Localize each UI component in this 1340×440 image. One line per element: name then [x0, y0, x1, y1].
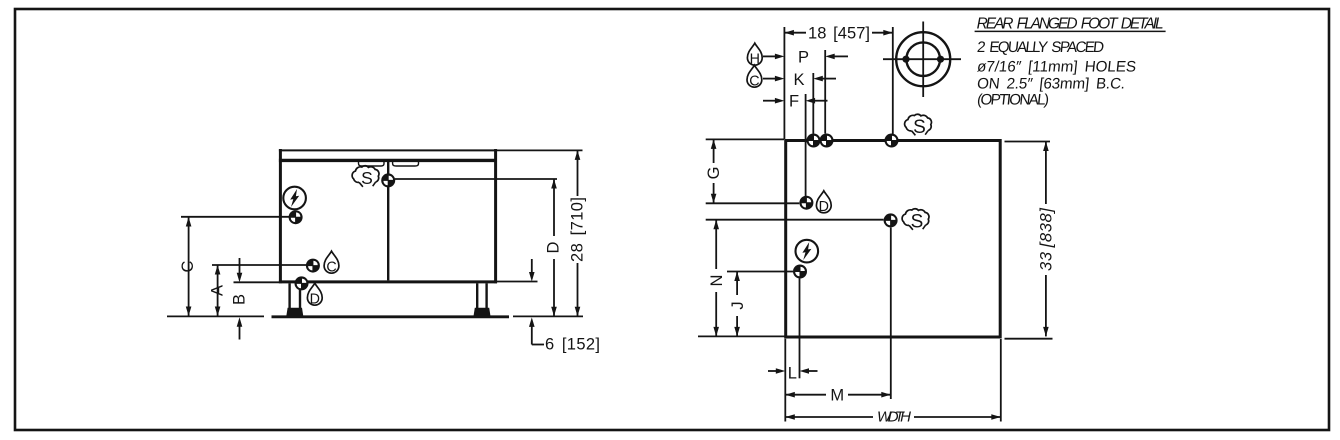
dim F arrow left: [775, 98, 785, 104]
ext 33 bottom: [1005, 338, 1053, 340]
note heading underline: [975, 30, 1166, 32]
ext drain level left: [706, 202, 800, 204]
right foot: [473, 308, 490, 317]
dim 33 arrow top: [1043, 142, 1049, 152]
svg-text:(OPTIONAL): (OPTIONAL): [976, 92, 1050, 109]
cabinet top line: [279, 149, 497, 151]
plan extension and dim lines: [698, 27, 1053, 422]
steam marker (plan): [884, 213, 898, 227]
dim 6 arrow bottom: [529, 317, 535, 327]
cabinet right edge: [494, 149, 497, 283]
ext line electrical height: [181, 216, 289, 218]
dim L arrow right: [800, 368, 810, 374]
dim F arrows shafts: [763, 100, 776, 102]
steam cloud above top edge: [905, 114, 932, 138]
ext F to drain marker: [805, 94, 807, 196]
dim 18 arrow left: [784, 30, 794, 36]
dim WIDTH arrow right: [991, 414, 1001, 420]
steam cloud S (elevation): [352, 166, 379, 188]
ext line steam height right: [395, 178, 557, 180]
electrical connection marker (elevation): [289, 210, 303, 224]
ext plan top-left: [706, 138, 784, 140]
cabinet bottom edge: [279, 280, 497, 283]
svg-text:REAR FLANGED FOOT DETAIL: REAR FLANGED FOOT DETAIL: [977, 16, 1164, 33]
ext steam level left: [706, 219, 884, 221]
dim 28 arrow bottom: [575, 307, 581, 317]
steam cloud S (plan): [902, 209, 929, 233]
dim line N: [715, 220, 717, 269]
drain drop D (elevation): [307, 283, 322, 307]
dim K arrow right: [813, 76, 823, 82]
dim D arrow bottom: [551, 307, 557, 317]
dim L arrow shafts: [768, 370, 777, 372]
ext P line: [824, 50, 826, 134]
dim 33 arrow bottom: [1043, 327, 1049, 337]
dim 6 arrow top: [529, 272, 535, 282]
svg-text:ON 2.5″ [63mm] B.C.: ON 2.5″ [63mm] B.C.: [976, 75, 1126, 92]
marker P (top edge): [820, 134, 834, 148]
dim C/K arrows shafts: [763, 78, 776, 80]
ext plan right below: [1000, 339, 1002, 422]
electrical marker (plan): [793, 265, 807, 279]
svg-text:D: D: [310, 291, 320, 307]
ground line right thin segment: [513, 315, 583, 317]
cabinet left edge: [279, 149, 282, 283]
dim line G: [713, 139, 715, 163]
dim 6 arrow shafts and leader: [531, 259, 533, 274]
dim line D: [553, 179, 555, 236]
svg-text:A: A: [208, 285, 226, 296]
cold water drop C (elevation): [324, 251, 339, 275]
dim J arrow bottom: [734, 327, 740, 337]
svg-text:C: C: [326, 259, 336, 275]
dim P arrow left: [775, 54, 785, 60]
svg-text:K: K: [793, 71, 804, 89]
ext plan left below: [784, 339, 786, 422]
foot detail crosshair vertical: [922, 22, 924, 98]
dim L arrow left: [776, 368, 786, 374]
left foot: [286, 308, 303, 317]
dim C arrow bottom: [186, 307, 192, 317]
extension + dimension lines, elevation: [181, 150, 583, 344]
svg-text:D: D: [545, 241, 563, 253]
dim 18 arrow right: [883, 30, 893, 36]
left door pull: [359, 162, 385, 166]
dim 28 arrow top: [575, 150, 581, 160]
foot detail hole left: [902, 56, 909, 63]
dim A arrow bottom: [215, 307, 221, 317]
dim G arrow top: [711, 139, 717, 149]
water drop H (plan left): [747, 43, 762, 67]
dim line M: [785, 394, 826, 396]
dim H/P arrows shafts: [763, 55, 776, 57]
ext line cabinet bottom left: [234, 281, 280, 283]
svg-text:G: G: [705, 167, 723, 180]
ext line cabinet bottom right: [497, 281, 538, 283]
dim K arrow left: [775, 76, 785, 82]
svg-text:P: P: [798, 49, 809, 67]
dim A arrow top: [215, 265, 221, 275]
svg-text:S: S: [911, 212, 924, 233]
svg-text:33 [838]: 33 [838]: [1037, 208, 1055, 271]
dim B arrow top: [237, 273, 243, 283]
electrical symbol (plan): [796, 240, 819, 263]
door split line: [387, 162, 389, 281]
dim C arrow top: [186, 217, 192, 227]
svg-text:D: D: [819, 199, 829, 215]
ext steam marker to M dim: [890, 228, 892, 400]
electrical symbol (elevation): [283, 187, 306, 210]
ext line cabinet top right: [497, 149, 583, 151]
ground line main thick segment: [272, 315, 510, 318]
right leg: [476, 283, 478, 308]
ext electrical marker to L dim: [799, 279, 801, 379]
ext right of 18 dim / steam: [892, 27, 894, 138]
svg-text:ø7/16″ [11mm] HOLES: ø7/16″ [11mm] HOLES: [976, 59, 1137, 76]
dim F arrow right: [806, 98, 816, 104]
svg-text:J: J: [729, 301, 747, 309]
svg-text:B: B: [230, 294, 248, 305]
svg-text:L: L: [788, 365, 797, 383]
svg-text:C: C: [749, 73, 759, 89]
ext 33 top: [1005, 141, 1051, 143]
foot detail crosshair horizontal: [883, 58, 961, 60]
dim P arrow right: [825, 54, 835, 60]
svg-text:WIDTH: WIDTH: [877, 409, 911, 426]
svg-text:S: S: [913, 117, 926, 138]
dim line WIDTH: [785, 416, 873, 418]
water drop C (plan left): [747, 65, 762, 89]
svg-text:F: F: [789, 93, 799, 111]
drain drop D (plan): [816, 191, 831, 215]
foot detail inner circle: [906, 42, 940, 76]
dim line J: [736, 272, 738, 296]
foot detail hole right: [937, 56, 944, 63]
ext electrical level left: [727, 271, 793, 273]
ext plan bottom-left: [698, 335, 785, 337]
foot detail outer circle: [896, 32, 950, 86]
plan outline: [786, 141, 1001, 338]
svg-text:2 EQUALLY SPACED: 2 EQUALLY SPACED: [976, 39, 1105, 56]
right door pull: [393, 162, 419, 166]
marker K (top edge): [807, 134, 821, 148]
svg-text:N: N: [708, 275, 726, 287]
dim J arrow top: [734, 272, 740, 282]
svg-text:M: M: [830, 387, 844, 405]
dim line 18: [784, 32, 806, 34]
dim line 28: [577, 150, 579, 196]
dim line 33: [1045, 142, 1047, 205]
svg-text:C: C: [179, 260, 197, 272]
cold water connection marker (elevation): [306, 259, 320, 273]
dim line A: [217, 265, 219, 316]
dim WIDTH arrow left: [785, 414, 795, 420]
dim N arrow bottom: [713, 327, 719, 337]
marker steam (top edge): [885, 134, 899, 148]
dim line C: [188, 217, 190, 316]
ext left of 18 dim: [783, 27, 785, 139]
ground line left thin segment: [167, 315, 264, 317]
dim line B arrows shafts: [239, 258, 241, 276]
svg-text:18 [457]: 18 [457]: [808, 25, 870, 43]
drain connection marker (elevation): [295, 276, 309, 290]
drain marker (plan): [799, 196, 813, 210]
cabinet counter band: [279, 159, 497, 162]
dim G arrow bottom: [711, 194, 717, 204]
left leg: [288, 283, 290, 308]
svg-text:28 [710]: 28 [710]: [568, 197, 586, 262]
svg-text:6 [152]: 6 [152]: [545, 336, 600, 354]
ext K line: [812, 73, 814, 134]
steam connection marker (elevation): [381, 173, 395, 187]
dim M arrow left: [785, 392, 795, 398]
svg-text:S: S: [361, 168, 373, 188]
dim M arrow right: [881, 392, 891, 398]
ext line cold water height: [212, 264, 306, 266]
dim B arrow bottom: [237, 317, 243, 327]
dim N arrow top: [713, 220, 719, 230]
dim D arrow top: [551, 179, 557, 189]
